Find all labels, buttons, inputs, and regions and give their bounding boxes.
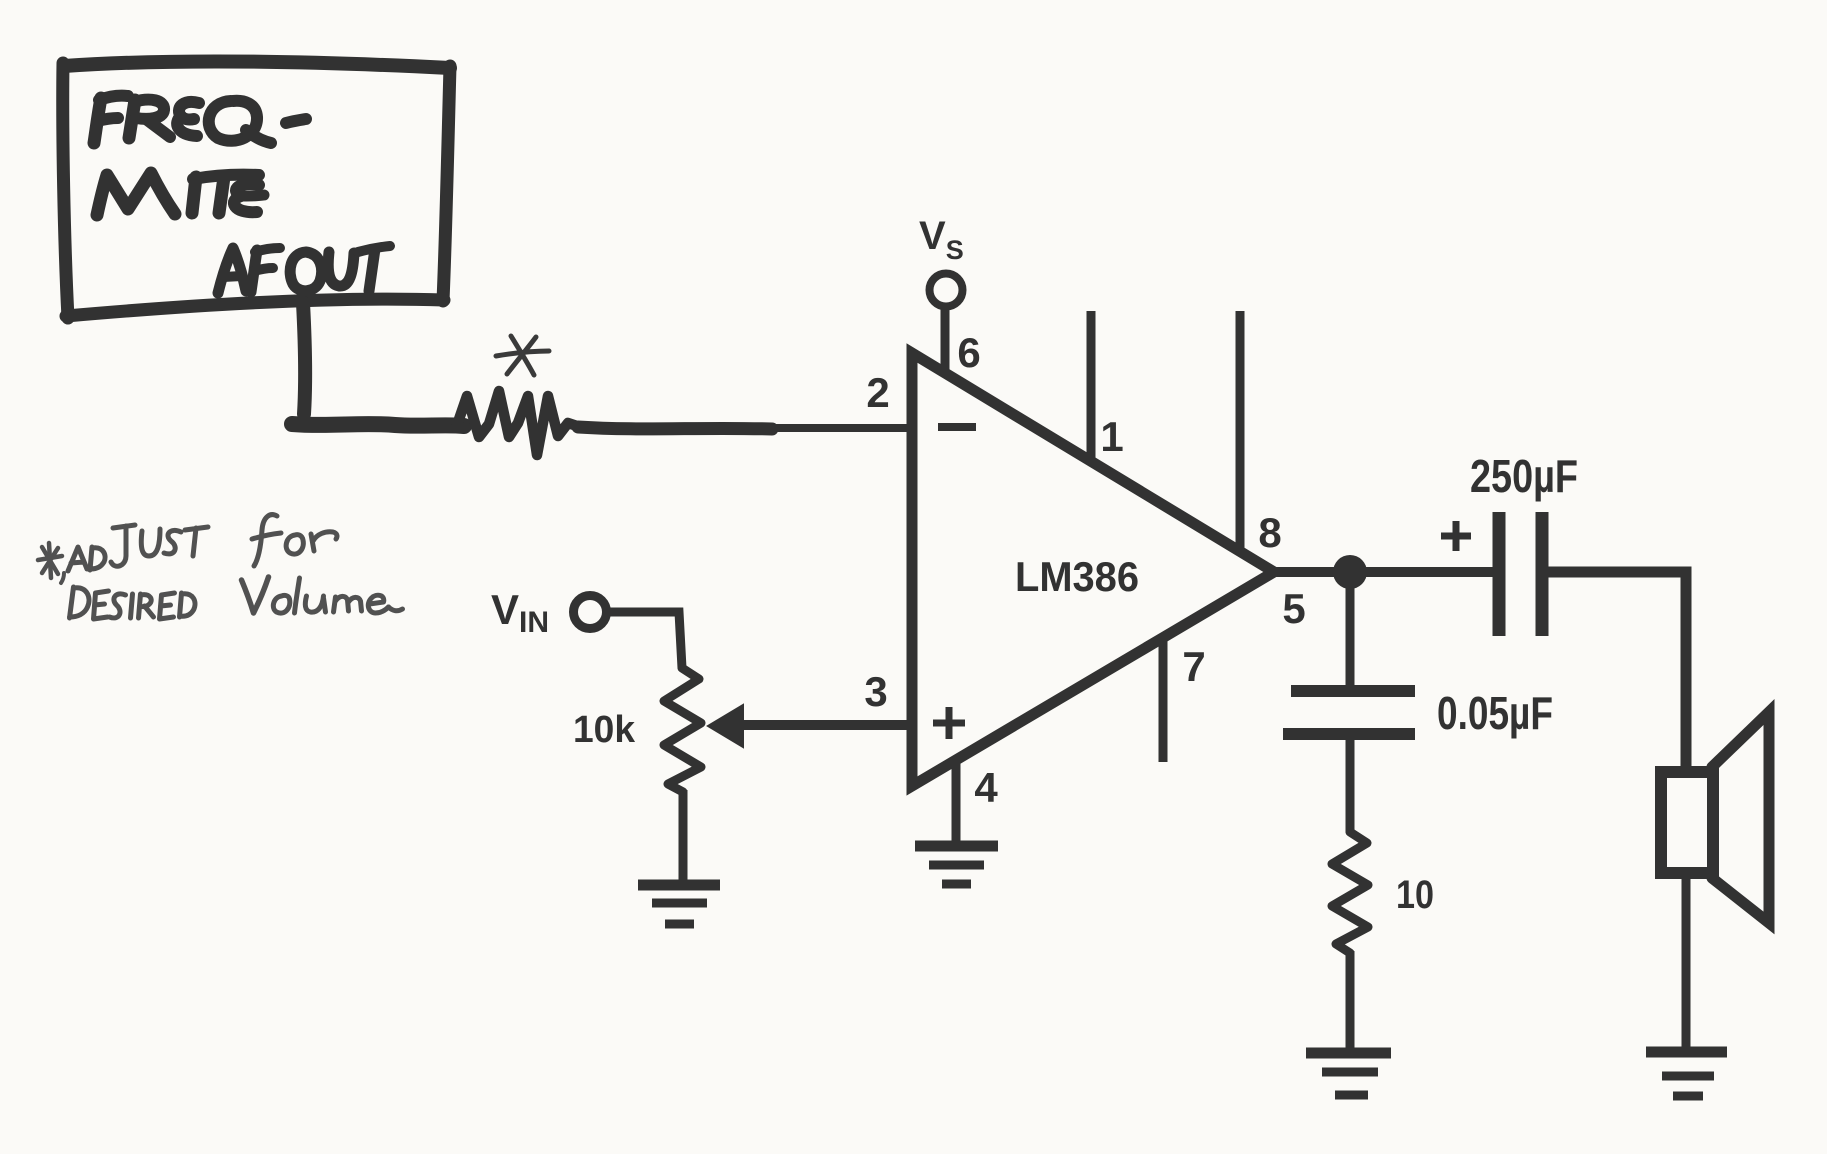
svg-text:2: 2 — [866, 369, 889, 416]
AF OUT label — [218, 246, 390, 293]
pin 4 label — [974, 764, 998, 811]
pin 8 stub — [1236, 311, 1245, 548]
250uF label — [1470, 450, 1578, 502]
svg-text:6: 6 — [957, 329, 980, 376]
Vs terminal circle — [930, 274, 963, 307]
wire resistor to pin 2 (hand) — [578, 427, 772, 429]
ground op-amp — [915, 846, 998, 884]
VIN terminal circle — [574, 596, 607, 629]
svg-text:1: 1 — [1100, 413, 1123, 460]
svg-text:7: 7 — [1182, 643, 1205, 690]
inverting input minus — [938, 423, 976, 431]
MITE label — [97, 173, 264, 215]
svg-text:5: 5 — [1282, 585, 1305, 632]
pot bottom wire — [679, 790, 688, 881]
svg-text:8: 8 — [1258, 509, 1281, 556]
FREQ- label — [94, 96, 306, 143]
0.05uF label — [1437, 687, 1553, 739]
capacitor 0.05uF plates — [1283, 691, 1415, 734]
op-amp U1 LM386 triangle — [912, 353, 1274, 786]
svg-text:VIN: VIN — [491, 586, 549, 639]
wire cap to resistor 10 — [1346, 739, 1355, 832]
wire to pin 2 — [755, 424, 912, 432]
pin 7 label — [1182, 643, 1205, 690]
pin 2 label — [866, 369, 889, 416]
speaker coil rect — [1661, 772, 1713, 873]
capacitor 250uF polarity plus — [1441, 521, 1471, 551]
pin 1 label — [1100, 413, 1123, 460]
resistor 10 zigzag — [1332, 832, 1368, 953]
wire junction to cap 0.05uF — [1346, 585, 1355, 686]
svg-text:10k: 10k — [573, 709, 636, 751]
Vs label — [919, 214, 964, 265]
10k label — [573, 709, 636, 751]
pot wiper arrowhead — [708, 705, 743, 747]
svg-text:0.05µF: 0.05µF — [1437, 687, 1553, 739]
svg-text:250µF: 250µF — [1470, 450, 1578, 502]
svg-text:3: 3 — [864, 668, 887, 715]
svg-text:10: 10 — [1396, 873, 1434, 917]
ground resistor 10 — [1306, 1053, 1391, 1095]
pin 3 label — [864, 668, 887, 715]
wire box to volume resistor — [292, 303, 464, 426]
pin 1 stub — [1087, 311, 1096, 460]
VIN label — [491, 586, 549, 639]
potentiometer 10k zigzag — [664, 668, 701, 792]
non-inverting input plus — [933, 707, 965, 739]
pin 5 output wire — [1270, 567, 1494, 577]
pin 7 stub — [1159, 638, 1168, 762]
pin 5 label — [1282, 585, 1305, 632]
wire cap to speaker — [1548, 572, 1686, 768]
resistor 10 label — [1396, 873, 1434, 917]
asterisk volume marker — [496, 336, 549, 375]
pin 6 wire — [941, 306, 950, 376]
ground pot — [638, 885, 720, 924]
pin 6 label — [957, 329, 980, 376]
speaker bottom wire — [1682, 873, 1691, 1048]
wire VIN to pot — [606, 612, 682, 668]
FREQ-MITE box — [63, 62, 450, 318]
pin 4 wire — [952, 758, 961, 843]
wire resistor to ground — [1346, 951, 1355, 1048]
pin 3 wire — [740, 720, 912, 730]
LM386 label — [1015, 553, 1139, 600]
resistor volume adjust (hand-drawn) — [456, 391, 580, 455]
svg-text:LM386: LM386 — [1015, 553, 1139, 600]
ground speaker — [1646, 1052, 1727, 1096]
speaker horn — [1712, 712, 1769, 923]
capacitor 250uF plates — [1499, 512, 1542, 636]
pin 8 label — [1258, 509, 1281, 556]
output junction node — [1333, 555, 1367, 589]
note ADJUST for DESIRED Volume — [38, 515, 403, 619]
svg-text:VS: VS — [919, 214, 964, 265]
svg-text:4: 4 — [974, 764, 998, 811]
